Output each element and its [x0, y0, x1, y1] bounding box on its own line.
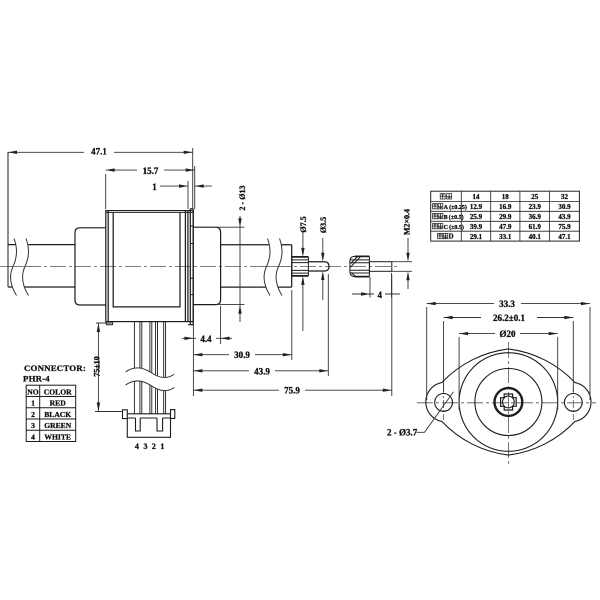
svg-text:D: D	[449, 234, 454, 241]
svg-text:33.3: 33.3	[499, 299, 515, 309]
svg-text:3: 3	[144, 442, 148, 451]
shaft left	[8, 245, 75, 287]
body left inner line	[107, 211, 109, 322]
dim 75+-10	[95, 323, 123, 412]
svg-text:30.9: 30.9	[234, 350, 250, 360]
dim 4.4	[182, 306, 232, 344]
wires	[134, 322, 165, 414]
svg-text:36.9: 36.9	[529, 213, 542, 221]
svg-text:15.7: 15.7	[143, 166, 159, 176]
screw head	[350, 256, 370, 276]
svg-text:30.9: 30.9	[558, 203, 571, 211]
mounting holes	[435, 394, 453, 412]
svg-text:25: 25	[531, 193, 539, 201]
svg-text:75±10: 75±10	[93, 356, 102, 376]
shaft left end face	[7, 152, 9, 287]
right bushing	[193, 227, 220, 304]
bottom tabs	[106, 322, 112, 325]
centerlines	[417, 342, 596, 464]
dim 1	[160, 166, 212, 209]
lead screw cross	[501, 394, 517, 410]
dim 30.9	[193, 290, 291, 396]
small shaft O3.5	[308, 262, 329, 271]
svg-text:25.9: 25.9	[470, 213, 483, 221]
dim O3.5	[322, 238, 324, 300]
wire break	[126, 368, 175, 391]
svg-text:Ø20: Ø20	[499, 329, 516, 339]
svg-text:2 - Ø13: 2 - Ø13	[238, 186, 247, 211]
dim 4 (screw head)	[352, 273, 400, 298]
svg-text:C (±0.5): C (±0.5)	[444, 224, 464, 231]
svg-text:32: 32	[561, 193, 569, 201]
inner circle	[503, 396, 515, 408]
connector PHR-4	[123, 410, 175, 438]
svg-text:18: 18	[502, 193, 510, 201]
svg-text:43.9: 43.9	[558, 213, 571, 221]
dim M2x0.4	[392, 238, 412, 289]
dim 33.3	[427, 304, 590, 400]
svg-text:75.9: 75.9	[284, 386, 300, 396]
threaded section O7.5	[292, 257, 309, 276]
flange outline	[426, 349, 591, 455]
svg-text:75.9: 75.9	[558, 223, 571, 231]
motor body outer	[106, 211, 193, 322]
svg-text:3: 3	[31, 421, 35, 430]
svg-text:4.4: 4.4	[200, 334, 212, 344]
color table	[26, 385, 75, 441]
CJK-like labels col1	[433, 194, 452, 239]
svg-text:BLACK: BLACK	[44, 410, 71, 419]
centerline redraw across breaks	[10, 266, 288, 268]
svg-text:2: 2	[31, 410, 35, 419]
centerline side view	[0, 266, 400, 268]
break symbol left shaft	[11, 239, 29, 296]
shaft step face	[291, 245, 293, 287]
left bushing	[75, 228, 106, 305]
svg-text:33.1: 33.1	[499, 233, 512, 241]
svg-text:1: 1	[160, 442, 164, 451]
dim 43.9	[193, 274, 328, 376]
svg-text:1: 1	[152, 182, 157, 192]
dim O7.5	[302, 232, 304, 331]
dim 75.9	[193, 275, 391, 396]
svg-text:WHITE: WHITE	[44, 433, 71, 442]
end plate outer	[190, 209, 193, 325]
svg-text:40.1: 40.1	[529, 233, 542, 241]
svg-text:2 - Ø3.7: 2 - Ø3.7	[387, 428, 418, 438]
dim 26.2+-0.1	[444, 318, 574, 393]
coil inner rect	[113, 212, 180, 307]
dim 47.1	[8, 148, 193, 209]
svg-text:4: 4	[135, 442, 139, 451]
svg-text:2: 2	[152, 442, 156, 451]
svg-text:47.1: 47.1	[558, 233, 571, 241]
mid circle	[475, 369, 542, 436]
svg-text:COLOR: COLOR	[44, 388, 72, 397]
svg-text:47.1: 47.1	[91, 147, 107, 157]
dim O20	[459, 334, 558, 410]
svg-text:4: 4	[378, 290, 383, 300]
bearing ring	[495, 388, 523, 416]
svg-text:PHR-4: PHR-4	[23, 374, 50, 384]
plate ticks	[190, 226, 193, 295]
svg-text:M2×0.4: M2×0.4	[402, 209, 411, 235]
svg-text:RED: RED	[50, 399, 67, 408]
svg-text:B (±0.5): B (±0.5)	[444, 214, 464, 221]
svg-text:29.1: 29.1	[470, 233, 483, 241]
dim 15.7	[106, 170, 195, 209]
svg-text:26.2±0.1: 26.2±0.1	[493, 313, 525, 323]
svg-text:29.9: 29.9	[499, 213, 512, 221]
svg-text:Ø3.5: Ø3.5	[319, 217, 328, 233]
svg-text:Ø7.5: Ø7.5	[299, 216, 308, 232]
circle O20	[459, 353, 558, 452]
break symbol right shaft	[264, 239, 282, 296]
svg-text:16.9: 16.9	[499, 203, 512, 211]
svg-text:12.9: 12.9	[470, 203, 483, 211]
end plate lines	[185, 211, 188, 322]
svg-text:23.9: 23.9	[529, 203, 542, 211]
shaft right	[221, 245, 292, 287]
svg-text:CONNECTOR:: CONNECTOR:	[24, 363, 86, 373]
svg-text:1: 1	[31, 399, 35, 408]
screw shank	[369, 262, 391, 272]
svg-text:43.9: 43.9	[254, 366, 270, 376]
svg-text:61.9: 61.9	[529, 223, 542, 231]
dim 2-O13	[239, 216, 241, 322]
svg-text:GREEN: GREEN	[44, 421, 72, 430]
svg-text:14: 14	[473, 193, 481, 201]
svg-text:4: 4	[31, 433, 35, 442]
svg-text:47.9: 47.9	[499, 223, 512, 231]
svg-text:39.9: 39.9	[470, 223, 483, 231]
svg-text:A (±0.25): A (±0.25)	[444, 204, 467, 211]
leader 2-O3.7	[417, 392, 454, 433]
svg-text:NO: NO	[27, 388, 38, 397]
